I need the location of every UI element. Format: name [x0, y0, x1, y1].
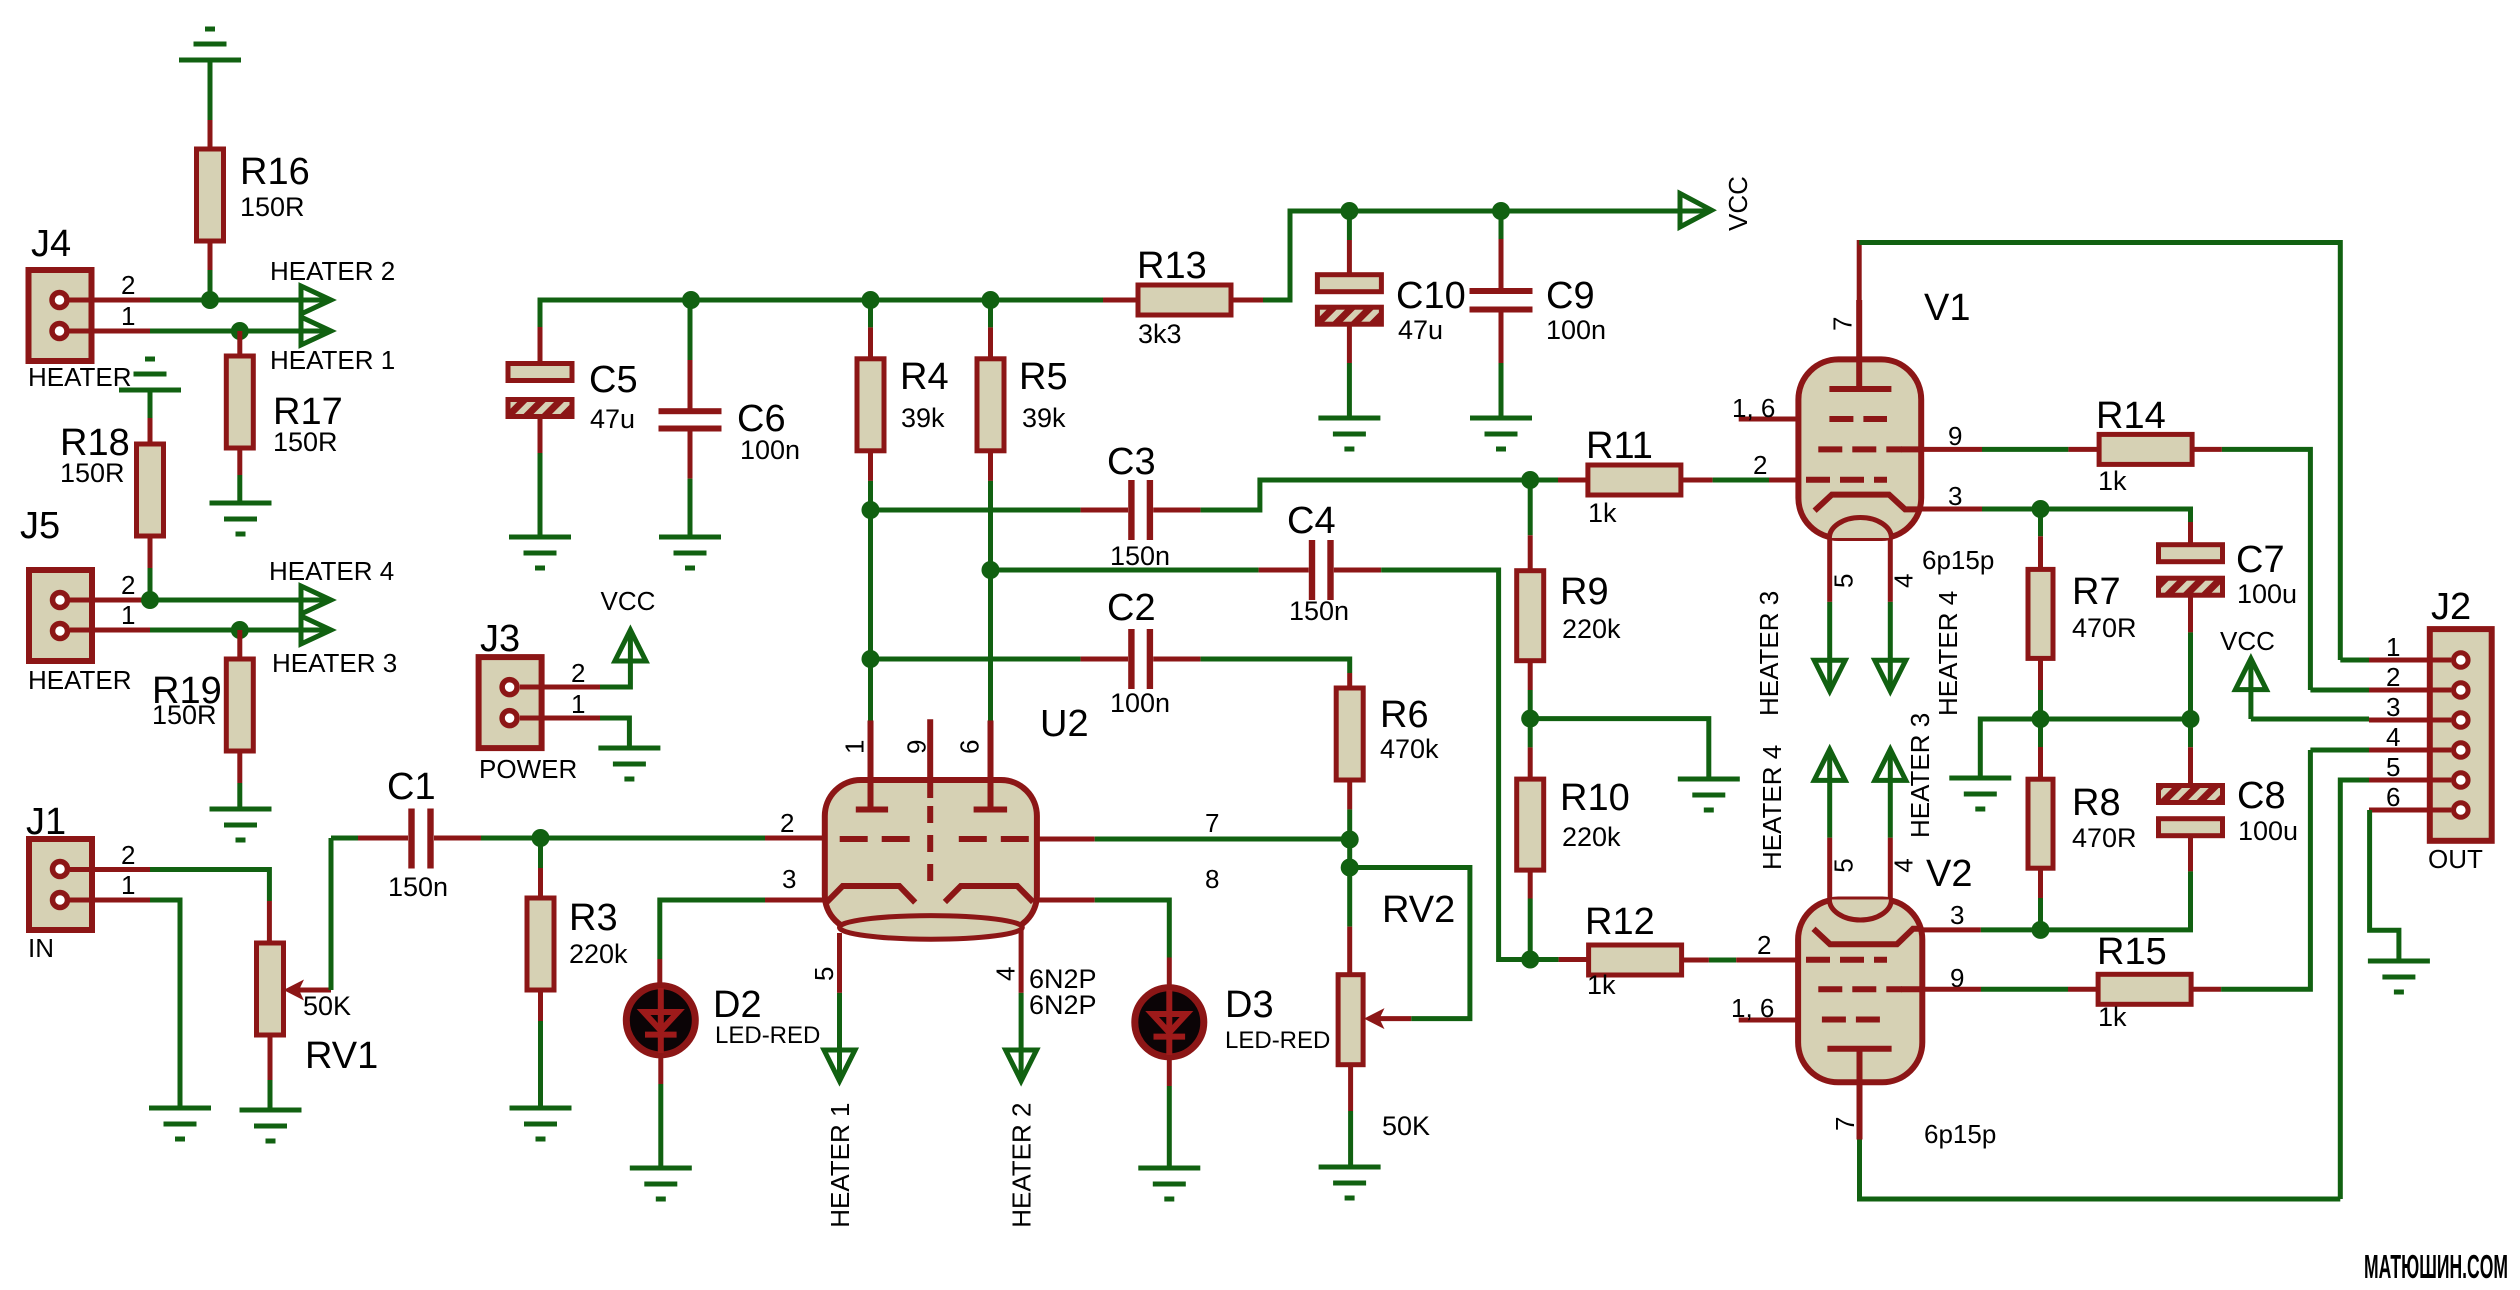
svg-text:R16: R16 [240, 151, 310, 193]
wire R11 to V1 pin 2 [1681, 450, 1798, 480]
resistor R7 [2028, 509, 2137, 658]
J5 pin 2 wire to HEATER 4 [70, 570, 331, 600]
svg-text:RV2: RV2 [1382, 889, 1455, 931]
resistor R13 [1103, 245, 1231, 349]
svg-text:150n: 150n [1110, 541, 1170, 571]
svg-text:R3: R3 [569, 897, 618, 939]
svg-text:47u: 47u [1398, 315, 1443, 345]
svg-text:POWER: POWER [479, 754, 577, 784]
terminal HEATER 2 (U2.4) [1006, 1050, 1037, 1228]
tube V2 [1798, 853, 1996, 1149]
svg-text:220k: 220k [1562, 614, 1621, 644]
wire U2 pin 7 [1037, 808, 1350, 839]
wire J2 pin6 to ground [2370, 810, 2399, 961]
J2 pin 1 wire [2369, 632, 2451, 662]
svg-text:VCC: VCC [1723, 176, 1753, 231]
svg-text:9: 9 [1948, 421, 1962, 451]
wire R16 top [208, 60, 213, 150]
junction V1.3/R7/C7 [2032, 500, 2050, 518]
J2 pin 5 wire [2369, 752, 2451, 782]
wire R4-U2.1 [868, 510, 873, 721]
capacitor C3 [871, 441, 1531, 571]
capacitor C8 [2041, 719, 2299, 930]
junction VCC/C10 [1340, 202, 1358, 220]
resistor R4 [857, 300, 949, 451]
junction J4.2/R16 [201, 291, 219, 309]
svg-text:2: 2 [2386, 662, 2400, 692]
svg-text:3: 3 [1950, 900, 1964, 930]
svg-text:V1: V1 [1924, 287, 1970, 329]
J2 pin 6 wire [2369, 782, 2451, 812]
junction C3/R11/R9 [1521, 471, 1539, 489]
svg-text:6: 6 [955, 740, 985, 754]
ground (under C6) [659, 537, 721, 568]
ground (under D2) [630, 1168, 692, 1199]
svg-text:4: 4 [1889, 574, 1919, 588]
wire R16 bottom [208, 241, 213, 300]
J1 pin 2 wire to RV1 top [70, 840, 269, 945]
svg-text:R8: R8 [2072, 782, 2121, 824]
svg-text:1: 1 [571, 689, 585, 719]
svg-text:HEATER 2: HEATER 2 [1007, 1103, 1037, 1228]
resistor R15 [1922, 931, 2191, 1032]
power terminal VCC (J3) [601, 586, 656, 661]
wire C7-C8 link [2041, 717, 2191, 722]
svg-text:150n: 150n [1289, 596, 1349, 626]
resistor R19 [152, 659, 253, 751]
resistor R3 [527, 897, 628, 990]
wire R7 bottom [2038, 659, 2043, 720]
terminal HEATER 2 [270, 256, 395, 314]
connector J1 [26, 801, 92, 963]
svg-text:5: 5 [2386, 752, 2400, 782]
wire U2 pin 4 to HEATER 2 [1019, 930, 1024, 1081]
junction J5.2/R18 [141, 591, 159, 609]
svg-text:HEATER 2: HEATER 2 [270, 256, 395, 286]
wire RV2 bottom [1348, 1065, 1353, 1167]
resistor R11 [1530, 425, 1681, 528]
svg-text:100u: 100u [2237, 579, 2297, 609]
wire R14 to J2 pin 2 [2192, 449, 2310, 690]
svg-text:HEATER 3: HEATER 3 [1754, 591, 1784, 716]
svg-text:100u: 100u [2238, 816, 2298, 846]
svg-text:150R: 150R [152, 700, 217, 730]
svg-text:C4: C4 [1287, 500, 1336, 542]
svg-text:50K: 50K [303, 991, 351, 1021]
wire D2 bottom [658, 1055, 663, 1168]
wire V1 pin 7 to J2 pin1 net [1859, 240, 2340, 660]
power terminal VCC (rail) [1680, 176, 1753, 231]
svg-text:VCC: VCC [601, 586, 656, 616]
ground (under C10) [1318, 418, 1380, 449]
wire R9/R10 to ground [1530, 719, 1709, 779]
svg-text:U2: U2 [1040, 703, 1089, 745]
J1 pin 1 wire to ground [70, 870, 180, 1108]
wire V2 pin 4 to HEATER 3 [1888, 749, 1893, 899]
svg-text:470R: 470R [2072, 823, 2137, 853]
wire R8 bottom [2038, 868, 2043, 930]
ground (J1 pin1) [149, 1108, 211, 1139]
wire R5 bottom [988, 451, 993, 570]
wire V1 pin 5 to HEATER 3 [1827, 538, 1832, 691]
junction C1/R3/U2.2 [532, 829, 550, 847]
svg-text:C5: C5 [589, 359, 638, 401]
ground (under R3) [510, 1108, 572, 1139]
ground (under C5) [509, 537, 571, 568]
wire V1 pin 4 to HEATER 4 [1888, 538, 1893, 691]
resistor R5 [977, 300, 1068, 451]
svg-text:R7: R7 [2072, 571, 2121, 613]
potentiometer RV2 [1338, 889, 1455, 1141]
junction R4/C3 [862, 501, 880, 519]
svg-text:3: 3 [782, 864, 796, 894]
ground (J2 pin6) [2368, 961, 2430, 992]
RV1 wiper wire [284, 838, 332, 1001]
svg-text:150R: 150R [240, 192, 305, 222]
svg-text:7: 7 [1205, 808, 1219, 838]
wire R5-U2.6 [988, 570, 993, 721]
svg-text:1k: 1k [1588, 498, 1617, 528]
wire pin3 node to C7 [2041, 509, 2191, 546]
wire R3 bottom [538, 990, 543, 1108]
V1 pin 1,6 stub [1732, 393, 1798, 423]
svg-text:1k: 1k [1587, 970, 1616, 1000]
junction R10/R12/C4 [1521, 951, 1539, 969]
svg-text:7: 7 [1830, 1117, 1860, 1131]
wire J2 pin1 link [2340, 658, 2369, 663]
resistor R18 [60, 422, 164, 536]
junction U2.7/R6 [1341, 831, 1359, 849]
svg-text:5: 5 [1829, 574, 1859, 588]
ground (under D3) [1138, 1168, 1200, 1199]
svg-text:2: 2 [1757, 930, 1771, 960]
svg-text:39k: 39k [1022, 403, 1066, 433]
ground (above R16) [179, 29, 241, 60]
svg-text:2: 2 [121, 570, 135, 600]
terminal HEATER 4 [269, 556, 394, 614]
svg-text:J1: J1 [26, 801, 66, 843]
svg-text:C7: C7 [2236, 539, 2285, 581]
svg-text:6p15p: 6p15p [1922, 545, 1994, 575]
svg-text:V2: V2 [1926, 853, 1972, 895]
ground (under RV1) [240, 1110, 302, 1141]
wire J2 pin2 link [2310, 688, 2369, 693]
svg-text:R13: R13 [1137, 245, 1207, 287]
connector J3 [479, 618, 578, 784]
svg-text:C2: C2 [1107, 587, 1156, 629]
svg-text:J2: J2 [2431, 586, 2471, 628]
ground (R9/R10 mid) [1678, 779, 1740, 810]
resistor R6 [1336, 673, 1439, 780]
svg-text:D3: D3 [1225, 984, 1274, 1026]
ground (under C9) [1470, 418, 1532, 449]
svg-text:6: 6 [2386, 782, 2400, 812]
svg-text:50K: 50K [1382, 1111, 1430, 1141]
J2 pin 3 wire [2369, 692, 2451, 722]
svg-text:1k: 1k [2098, 1002, 2127, 1032]
wire V2 pin 7 to J2 pin5 net [1860, 1140, 2341, 1200]
wire R6 bottom [1347, 780, 1352, 840]
terminal HEATER 4 (V2.5) [1757, 745, 1845, 870]
svg-text:3k3: 3k3 [1138, 319, 1182, 349]
J2 pin 4 wire [2369, 722, 2451, 752]
svg-text:HEATER: HEATER [28, 362, 132, 392]
capacitor C2 [871, 587, 1350, 718]
watermark [2364, 1248, 2508, 1285]
terminal HEATER 3 (V1.5) [1754, 591, 1845, 716]
tube V1 [1798, 287, 1994, 588]
svg-text:HEATER 1: HEATER 1 [825, 1103, 855, 1228]
svg-text:5: 5 [809, 967, 839, 981]
svg-text:C9: C9 [1546, 275, 1595, 317]
svg-text:2: 2 [121, 270, 135, 300]
svg-text:R11: R11 [1586, 425, 1653, 467]
wire U2 pin 5 to HEATER 1 [837, 933, 842, 1081]
wire R18 top [148, 390, 153, 445]
wire RV2 top [1347, 840, 1352, 977]
wire V2 pin 9 label [1950, 963, 1964, 993]
wire R4 bottom [868, 451, 873, 510]
J3 pin 2 wire to VCC [520, 630, 630, 688]
svg-text:4: 4 [1889, 858, 1919, 872]
svg-text:HEATER 3: HEATER 3 [1905, 713, 1935, 838]
svg-text:1k: 1k [2098, 466, 2127, 496]
wire R9 top [1528, 480, 1533, 572]
svg-text:LED-RED: LED-RED [1225, 1027, 1330, 1054]
svg-text:VCC: VCC [2220, 626, 2275, 656]
svg-text:R14: R14 [2096, 395, 2166, 437]
terminal HEATER 1 [270, 317, 395, 375]
capacitor C1 [331, 766, 541, 902]
wire V1 pin 3 to R7 [1921, 507, 2040, 512]
ground (under R17) [210, 503, 272, 534]
RV2 wiper loop wire [1350, 868, 1470, 1030]
svg-text:100n: 100n [1110, 688, 1170, 718]
svg-text:J3: J3 [480, 618, 520, 660]
svg-text:1: 1 [2386, 632, 2400, 662]
potentiometer RV1 [257, 943, 379, 1077]
svg-text:100n: 100n [1546, 315, 1606, 345]
J3 pin 1 wire to ground [520, 689, 629, 748]
svg-text:C10: C10 [1396, 275, 1466, 317]
V2 pin 1,6 stub [1731, 993, 1798, 1023]
power terminal VCC (J2) [2220, 626, 2275, 719]
ground (under R19) [210, 809, 272, 840]
svg-text:J4: J4 [31, 223, 71, 265]
wire D3 bottom [1167, 1057, 1172, 1168]
capacitor C10 [1317, 211, 1465, 418]
ground (under RV2) [1319, 1167, 1381, 1198]
svg-text:2: 2 [121, 840, 135, 870]
svg-text:HEATER 4: HEATER 4 [1757, 745, 1787, 870]
svg-text:6p15p: 6p15p [1924, 1119, 1996, 1149]
wire R19 bottom [237, 751, 242, 809]
ground (J3 pin1) [598, 748, 660, 779]
svg-text:1, 6: 1, 6 [1731, 993, 1774, 1023]
svg-text:R6: R6 [1380, 694, 1429, 736]
svg-text:OUT: OUT [2428, 844, 2483, 874]
wire V2 pin 5 to HEATER 4 [1827, 749, 1832, 899]
svg-text:D2: D2 [713, 984, 762, 1026]
wire U2 pin 2 [541, 808, 826, 838]
wire R19 top [237, 630, 242, 660]
ground (above R18) [119, 359, 181, 390]
wire V2 pin 3 to R8/C8 [1922, 927, 2040, 932]
svg-text:HEATER 3: HEATER 3 [272, 648, 397, 678]
J4 pin 1 wire to HEATER 1 [70, 301, 332, 331]
RV1 bottom wire [268, 1036, 273, 1110]
connector J5 [20, 505, 132, 695]
wire R17 top [237, 331, 242, 357]
svg-text:220k: 220k [569, 939, 628, 969]
svg-text:R5: R5 [1019, 356, 1068, 398]
svg-text:C8: C8 [2237, 775, 2286, 817]
svg-text:9: 9 [902, 740, 932, 754]
junction R7/R8/C7 [2032, 710, 2050, 728]
junction J4.1/R17 [231, 322, 249, 340]
svg-text:470R: 470R [2072, 613, 2137, 643]
svg-text:HEATER 4: HEATER 4 [269, 556, 394, 586]
svg-text:220k: 220k [1562, 822, 1621, 852]
junction bus/R5 [982, 291, 1000, 309]
wire R10 bottom [1528, 870, 1533, 959]
wire J2 pin5 link [2340, 780, 2369, 1199]
junction R5/C4 [982, 561, 1000, 579]
resistor R10 [1517, 719, 1630, 871]
svg-text:R15: R15 [2097, 931, 2167, 973]
junction R4/C2 [862, 650, 880, 668]
svg-text:150R: 150R [273, 427, 338, 457]
resistor R8 [2028, 719, 2137, 868]
junction bus/R4 [862, 291, 880, 309]
J4 pin 2 wire to HEATER 2 [70, 270, 332, 300]
capacitor C6 [659, 300, 801, 537]
wire J2 pin4 link [2310, 748, 2369, 753]
junction V2.3/R8/C8 [2032, 921, 2050, 939]
svg-text:R10: R10 [1560, 777, 1630, 819]
capacitor C5 [508, 327, 638, 537]
svg-text:8: 8 [1205, 864, 1219, 894]
svg-text:IN: IN [28, 933, 54, 963]
wire R9 bottom [1528, 661, 1533, 719]
junction bus/C6 [682, 291, 700, 309]
svg-text:HEATER 1: HEATER 1 [270, 345, 395, 375]
svg-text:5: 5 [1829, 858, 1859, 872]
capacitor C9 [1470, 211, 1607, 418]
svg-text:4: 4 [991, 967, 1021, 981]
junction C7/C8 [2182, 710, 2200, 728]
svg-text:RV1: RV1 [305, 1035, 378, 1077]
junction VCC/C9 [1492, 202, 1510, 220]
wire R13 to VCC bus [1231, 211, 1711, 300]
resistor R9 [1517, 571, 1621, 661]
wire R7/R8 to ground [1980, 719, 2040, 778]
svg-text:LED-RED: LED-RED [715, 1022, 820, 1049]
connector J4 [28, 223, 132, 392]
J5 pin 1 wire to HEATER 3 [70, 600, 331, 630]
svg-text:C3: C3 [1107, 441, 1156, 483]
svg-text:470k: 470k [1380, 734, 1439, 764]
svg-text:HEATER 4: HEATER 4 [1933, 591, 1963, 716]
svg-text:150R: 150R [60, 458, 125, 488]
terminal HEATER 1 (U2.5) [824, 1050, 855, 1228]
svg-text:J5: J5 [20, 505, 60, 547]
wire R15 to J2 pin 4 [2191, 750, 2310, 989]
resistor R17 [226, 356, 342, 457]
svg-text:47u: 47u [590, 404, 635, 434]
svg-text:R9: R9 [1560, 571, 1609, 613]
J2 pin 2 wire [2369, 662, 2451, 692]
resistor R14 [1921, 395, 2192, 496]
svg-text:1: 1 [121, 600, 135, 630]
svg-text:2: 2 [1753, 450, 1767, 480]
wire R18 bottom [148, 536, 153, 600]
junction R9/R10 [1521, 710, 1539, 728]
tube U2 [809, 703, 1097, 1020]
wire U2 pin 3 to D2 [660, 864, 825, 985]
junction RV2 loop [1341, 859, 1359, 877]
wire HT bus [540, 300, 1103, 327]
svg-text:R4: R4 [900, 356, 949, 398]
ground (R7/R8 mid) [1949, 778, 2011, 809]
svg-text:150n: 150n [388, 872, 448, 902]
terminal HEATER 3 (V2.4) [1875, 713, 1935, 838]
resistor R16 [197, 149, 310, 241]
wire V1 pin 9 label [1948, 421, 1962, 451]
svg-text:3: 3 [2386, 692, 2400, 722]
svg-text:МАТЮШИН.COM: МАТЮШИН.COM [2364, 1248, 2508, 1285]
svg-text:1, 6: 1, 6 [1732, 393, 1775, 423]
junction J5.1/R19 [231, 621, 249, 639]
wire R12 to V2 pin 2 [1682, 930, 1799, 960]
capacitor C4 [991, 500, 1531, 960]
LED D2 [626, 984, 820, 1055]
svg-text:1: 1 [121, 870, 135, 900]
svg-text:7: 7 [1828, 317, 1858, 331]
svg-text:1: 1 [840, 740, 870, 754]
svg-text:2: 2 [780, 808, 794, 838]
terminal HEATER 3 [272, 616, 397, 678]
svg-text:39k: 39k [901, 403, 945, 433]
wire R3 top [538, 838, 543, 900]
wire U2 pin 8 to D3 [1037, 864, 1219, 987]
LED D3 [1135, 984, 1331, 1057]
wire R17 bottom [237, 448, 242, 503]
wire VCC to J2 pin 3 [2251, 717, 2369, 722]
svg-text:HEATER: HEATER [28, 665, 132, 695]
svg-text:100n: 100n [740, 435, 800, 465]
svg-text:6N2P: 6N2P [1029, 990, 1097, 1020]
svg-text:C6: C6 [737, 398, 786, 440]
connector J2 [2428, 586, 2492, 874]
capacitor C7 [2159, 539, 2298, 719]
svg-text:C1: C1 [387, 766, 436, 808]
svg-text:R12: R12 [1585, 901, 1655, 943]
svg-text:2: 2 [571, 658, 585, 688]
wire V1 pin 3 label [1948, 481, 1962, 511]
svg-text:1: 1 [121, 301, 135, 331]
wire V2 pin 3 label [1950, 900, 1964, 930]
svg-text:4: 4 [2386, 722, 2400, 752]
terminal HEATER 4 (V1.4) [1875, 591, 1963, 716]
resistor R12 [1530, 901, 1681, 1000]
